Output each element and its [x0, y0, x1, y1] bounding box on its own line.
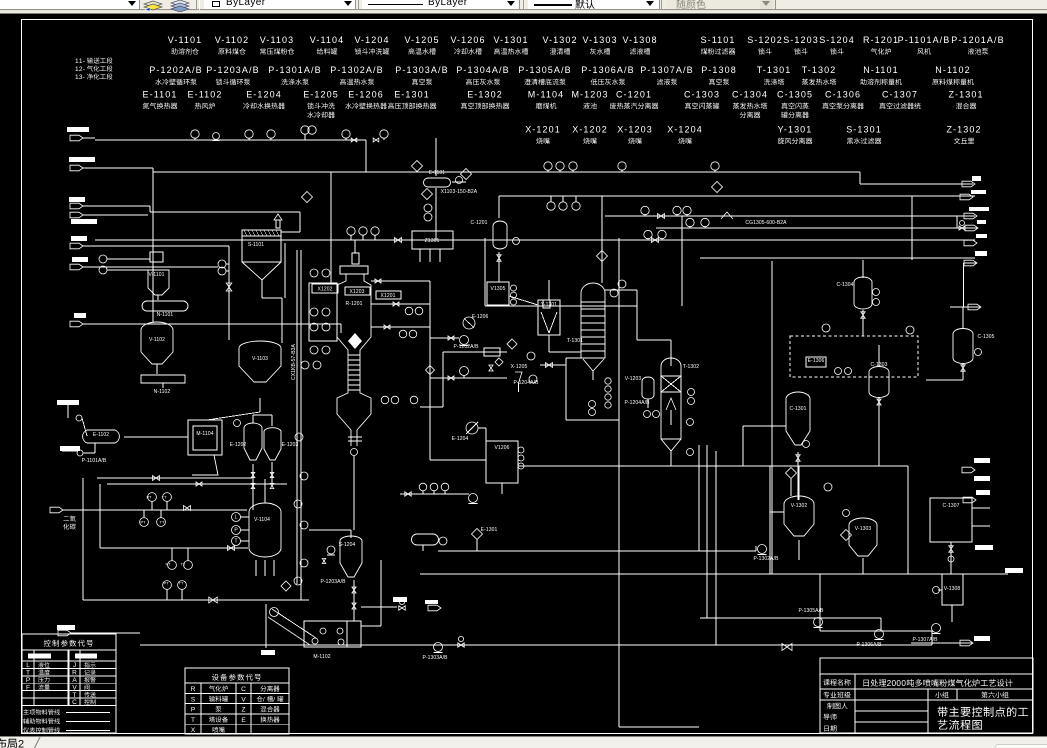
- svg-text:N-1102: N-1102: [154, 389, 171, 395]
- svg-text:P-1304A/B: P-1304A/B: [456, 65, 509, 75]
- svg-text:J: J: [73, 662, 76, 669]
- svg-text:E-1301: E-1301: [481, 527, 498, 533]
- svg-text:V-1301: V-1301: [493, 35, 528, 45]
- svg-text:S-1101: S-1101: [248, 242, 264, 248]
- svg-text:CG1305-600-B2A: CG1305-600-B2A: [745, 220, 787, 226]
- svg-text:E-1101: E-1101: [143, 90, 178, 100]
- svg-text:X-1201: X-1201: [525, 125, 561, 135]
- svg-text:P: P: [234, 528, 238, 534]
- svg-text:C-1201: C-1201: [616, 90, 652, 100]
- svg-text:2: 2: [18, 739, 24, 748]
- svg-text:E: E: [241, 717, 246, 724]
- svg-text:X1103-150-B2A: X1103-150-B2A: [441, 189, 478, 195]
- svg-text:V-1101: V-1101: [148, 272, 164, 278]
- svg-text:V-1203: V-1203: [625, 376, 642, 382]
- svg-text:T-1302: T-1302: [683, 364, 699, 370]
- svg-text:P-1306A/B: P-1306A/B: [581, 65, 634, 75]
- svg-text:E-1204: E-1204: [246, 90, 282, 100]
- svg-text:C: C: [241, 686, 246, 693]
- svg-text:T: T: [73, 692, 77, 699]
- svg-text:T-1302: T-1302: [802, 65, 837, 75]
- svg-text:C-1303: C-1303: [684, 90, 720, 100]
- svg-text:TT: TT: [162, 495, 167, 500]
- svg-text:E-1206: E-1206: [348, 90, 384, 100]
- svg-text:C-1304: C-1304: [732, 90, 768, 100]
- svg-text:E-1206: E-1206: [472, 314, 489, 320]
- svg-text:V-1302: V-1302: [542, 35, 577, 45]
- svg-text:X1202: X1202: [318, 287, 333, 293]
- svg-text:V1206: V1206: [495, 445, 510, 451]
- svg-text:S: S: [191, 696, 196, 703]
- svg-text:S-1202: S-1202: [747, 35, 783, 45]
- svg-text:PT: PT: [163, 581, 169, 586]
- svg-text:P-1303A/B: P-1303A/B: [422, 655, 448, 661]
- svg-text:E-1203: E-1203: [282, 442, 299, 448]
- svg-text:T: T: [234, 539, 237, 545]
- svg-text:C-1307: C-1307: [943, 503, 960, 509]
- svg-text:X-1203: X-1203: [617, 125, 653, 135]
- svg-text:V-1103: V-1103: [252, 356, 268, 362]
- svg-text:P-1101A/B: P-1101A/B: [82, 458, 107, 464]
- svg-text:TT: TT: [181, 562, 186, 567]
- svg-text:P: P: [191, 707, 195, 714]
- svg-text:T: T: [26, 670, 30, 677]
- svg-text:V-1102: V-1102: [215, 35, 249, 45]
- svg-text:P-1203A/B: P-1203A/B: [206, 65, 259, 75]
- svg-text:V1305: V1305: [491, 286, 506, 292]
- svg-text:P: P: [26, 677, 30, 684]
- svg-text:C-1301: C-1301: [790, 406, 807, 412]
- svg-text:C-1305: C-1305: [978, 334, 995, 340]
- svg-text:P-1302A/B: P-1302A/B: [753, 556, 779, 562]
- svg-text:V-1206: V-1206: [450, 35, 485, 45]
- svg-text:X1203: X1203: [350, 289, 365, 295]
- svg-text:X-1205: X-1205: [511, 364, 528, 370]
- svg-text:P-1202A/B: P-1202A/B: [453, 344, 479, 350]
- svg-text:R-1201: R-1201: [863, 35, 899, 45]
- svg-text:C-1307: C-1307: [882, 90, 918, 100]
- svg-text:V-1302: V-1302: [791, 503, 808, 509]
- svg-text:T: T: [191, 717, 195, 724]
- svg-text:Z1301: Z1301: [425, 238, 440, 244]
- svg-text:L: L: [26, 662, 30, 669]
- svg-text:M-1104: M-1104: [196, 431, 213, 437]
- svg-text:CX1KB-57-B3A: CX1KB-57-B3A: [291, 343, 297, 380]
- svg-text:S-1204: S-1204: [819, 35, 855, 45]
- svg-text:X: X: [191, 727, 196, 734]
- svg-text:E-1204: E-1204: [452, 436, 469, 442]
- svg-text:R: R: [191, 686, 196, 693]
- svg-text:C: C: [72, 699, 77, 706]
- svg-text:R: R: [72, 670, 77, 677]
- svg-text:S-1204: S-1204: [339, 542, 356, 548]
- svg-text:V: V: [241, 696, 246, 703]
- svg-text:N-1101: N-1101: [157, 312, 174, 318]
- svg-text:TT: TT: [179, 581, 184, 586]
- svg-text:C-1304: C-1304: [837, 282, 854, 288]
- svg-text:P-1302A/B: P-1302A/B: [330, 65, 383, 75]
- svg-text:L: L: [235, 515, 238, 521]
- svg-text:Y-1301: Y-1301: [778, 125, 813, 135]
- svg-text:E-1102: E-1102: [93, 432, 109, 438]
- svg-text:S-1301: S-1301: [846, 125, 882, 135]
- svg-text:N-1101: N-1101: [863, 65, 898, 75]
- svg-text:V: V: [72, 684, 77, 691]
- svg-text:P-1204A/B: P-1204A/B: [513, 380, 539, 386]
- svg-text:S-1101: S-1101: [701, 35, 736, 45]
- svg-text:P-1308: P-1308: [701, 65, 737, 75]
- svg-text:X-1202: X-1202: [572, 125, 608, 135]
- svg-text:/: /: [263, 696, 265, 703]
- svg-text:X1201: X1201: [381, 293, 396, 299]
- svg-text:M-1104: M-1104: [528, 90, 564, 100]
- svg-text:PT: PT: [140, 520, 146, 525]
- svg-text:PT: PT: [165, 562, 171, 567]
- svg-text:S-1203: S-1203: [783, 35, 819, 45]
- svg-text:-: -: [83, 66, 85, 73]
- svg-text:E-1101: E-1101: [429, 170, 445, 176]
- svg-text:E-1306: E-1306: [808, 358, 825, 364]
- svg-text:Z: Z: [242, 707, 246, 714]
- svg-text:C-1305: C-1305: [777, 90, 813, 100]
- svg-text:Z-1302: Z-1302: [946, 125, 981, 135]
- svg-text:C-1306: C-1306: [825, 90, 861, 100]
- svg-text:F: F: [26, 684, 30, 691]
- svg-text:P-1203A/B: P-1203A/B: [320, 579, 346, 585]
- svg-text:/: /: [273, 696, 275, 703]
- svg-text:V-1205: V-1205: [404, 35, 439, 45]
- svg-text:P-1201A/B: P-1201A/B: [951, 35, 1004, 45]
- svg-text:PT: PT: [146, 495, 152, 500]
- svg-text:E-1205: E-1205: [303, 90, 339, 100]
- svg-text:N-1102: N-1102: [935, 65, 970, 75]
- svg-text:P-1305A/B: P-1305A/B: [518, 65, 571, 75]
- svg-text:V-1101: V-1101: [168, 35, 202, 45]
- svg-text:A: A: [72, 677, 77, 684]
- svg-text:V-1308: V-1308: [944, 586, 961, 592]
- svg-text:E-1302: E-1302: [467, 90, 503, 100]
- svg-text:E-1301: E-1301: [394, 90, 430, 100]
- svg-text:0: 0: [901, 679, 906, 688]
- svg-text:V-1103: V-1103: [260, 35, 294, 45]
- svg-text:V-1308: V-1308: [622, 35, 657, 45]
- svg-text:-: -: [83, 74, 85, 81]
- svg-text:M-1102: M-1102: [313, 654, 330, 660]
- svg-text:P-1204A/B: P-1204A/B: [624, 400, 650, 406]
- svg-text:M-1203: M-1203: [571, 90, 608, 100]
- svg-text:C-1201: C-1201: [471, 220, 488, 226]
- svg-text:Z-1301: Z-1301: [948, 90, 983, 100]
- svg-text:V-1102: V-1102: [149, 337, 165, 343]
- svg-text:P-1101A/B: P-1101A/B: [898, 35, 951, 45]
- svg-text:V-1303: V-1303: [855, 526, 872, 532]
- svg-text:P-1307A/B: P-1307A/B: [640, 65, 693, 75]
- svg-text:V-1204: V-1204: [354, 35, 389, 45]
- svg-text:R-1201: R-1201: [346, 301, 363, 307]
- svg-text:E-1102: E-1102: [188, 90, 223, 100]
- svg-text:X-1204: X-1204: [667, 125, 703, 135]
- svg-text:P-1202A/B: P-1202A/B: [149, 65, 202, 75]
- svg-text:P-1303A/B: P-1303A/B: [395, 65, 448, 75]
- svg-text:V-1104: V-1104: [310, 35, 344, 45]
- svg-text:P-1307A/B: P-1307A/B: [912, 637, 938, 643]
- svg-text:TT: TT: [160, 520, 165, 525]
- svg-text:V-1104: V-1104: [254, 517, 270, 523]
- svg-text:V-1303: V-1303: [582, 35, 617, 45]
- svg-text:P-1301A/B: P-1301A/B: [268, 65, 321, 75]
- svg-text:-: -: [83, 58, 85, 65]
- svg-text:T-1301: T-1301: [757, 65, 792, 75]
